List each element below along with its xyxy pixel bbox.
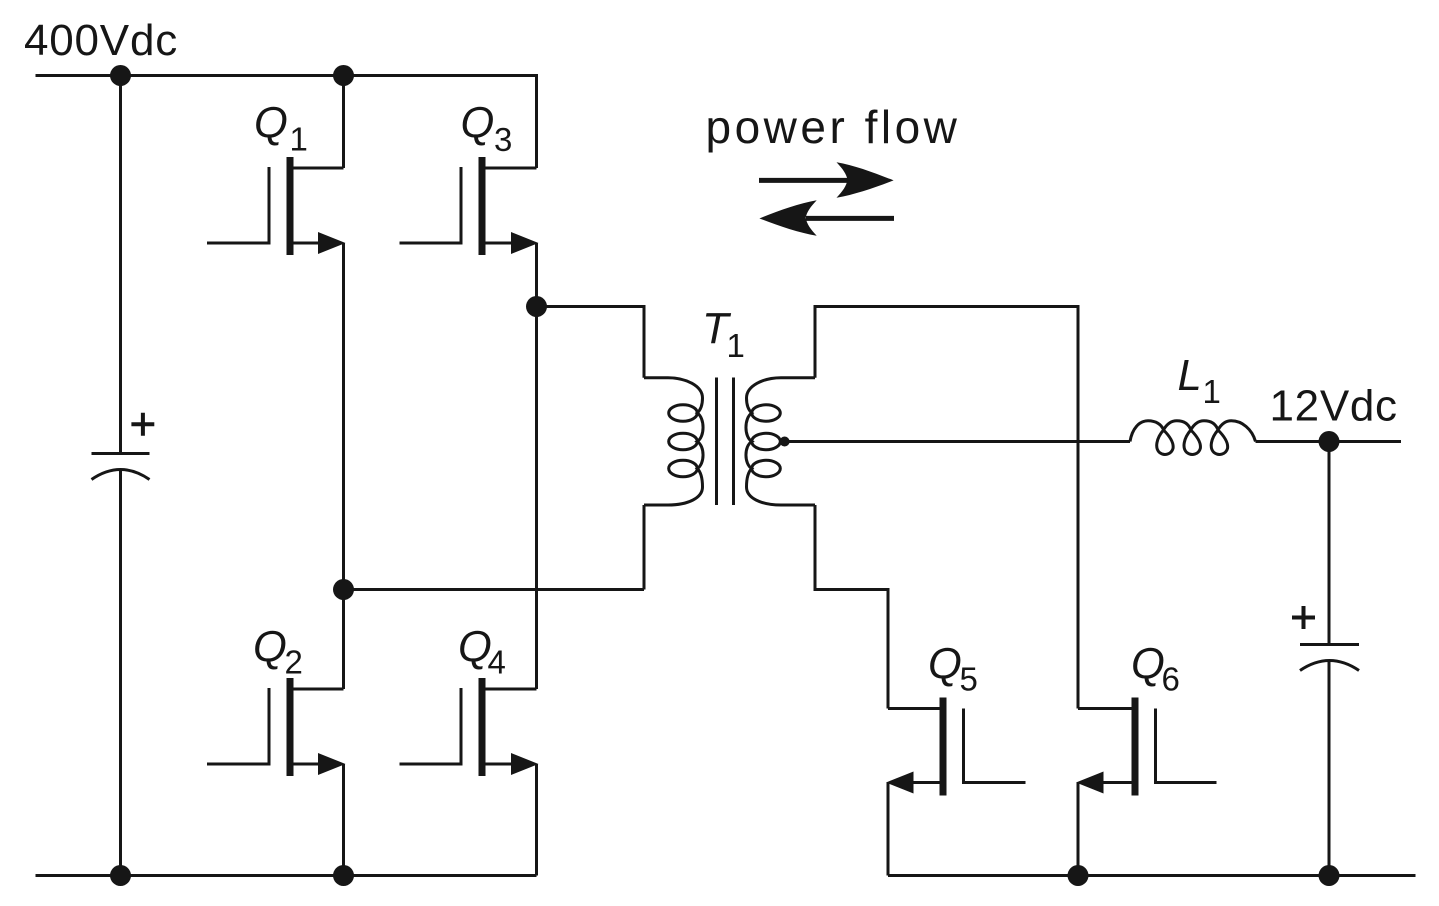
wire L1 to output xyxy=(1256,440,1402,443)
svg-text:L: L xyxy=(1178,352,1202,400)
capacitor output top plate xyxy=(1300,643,1359,646)
svg-text:Q: Q xyxy=(461,100,495,148)
wire T1 primary bottom lead xyxy=(643,505,646,590)
transistor Q2 channel bar xyxy=(287,678,294,776)
transistor Q1 gate xyxy=(207,167,269,243)
transistor Q5 drain lead xyxy=(888,707,940,710)
T1 secondary winding spine xyxy=(746,378,815,505)
transistor Q5 source wire to rail xyxy=(887,783,890,876)
transistor Q2 source lead xyxy=(294,763,323,766)
transistor Q4 gate xyxy=(400,688,462,764)
wire T1 secondary top to Q6 drain xyxy=(815,307,1078,709)
transistor Q5 channel bar xyxy=(940,698,947,796)
transistor Q5 source lead xyxy=(910,781,940,784)
transistor Q2 source wire to rail xyxy=(342,764,345,876)
svg-text:power flow: power flow xyxy=(706,101,961,153)
inductor L1 coil xyxy=(1130,421,1256,455)
T1 primary loop 3 xyxy=(669,460,698,476)
power flow right arrow shaft xyxy=(759,178,848,183)
transistor Q6 source arrow xyxy=(1076,772,1104,794)
svg-text:5: 5 xyxy=(960,661,978,698)
transistor Q3 source arrow xyxy=(511,232,539,254)
T1 primary winding spine xyxy=(644,378,703,505)
transistor Q2 source arrow xyxy=(318,753,346,775)
svg-text:4: 4 xyxy=(488,644,506,681)
capacitor output bottom wire xyxy=(1328,661,1331,876)
T1 primary loop 1 xyxy=(669,405,698,421)
transistor Q1 channel bar xyxy=(287,157,294,255)
power flow left arrow head xyxy=(759,200,816,236)
junction dot node B xyxy=(526,296,547,317)
capacitor input (400V bus) : top wire xyxy=(119,76,122,454)
svg-text:Q: Q xyxy=(253,624,287,672)
svg-text:1: 1 xyxy=(727,327,745,364)
junction dot bottom (cap output) xyxy=(1319,865,1340,886)
transistor Q6 source wire to rail xyxy=(1077,783,1080,876)
T1 center tap dot xyxy=(780,437,790,447)
transistor Q2 gate xyxy=(207,688,269,764)
transistor Q1 drain wire from rail xyxy=(342,76,345,169)
T1 core lines xyxy=(717,378,734,506)
wire bottom-right rail xyxy=(888,874,1416,877)
junction dot 12Vdc node xyxy=(1319,431,1340,452)
T1 secondary loop 1 xyxy=(752,405,781,421)
junction dot bottom (cap input) xyxy=(110,865,131,886)
transistor Q6 drain lead xyxy=(1078,707,1132,710)
svg-text:6: 6 xyxy=(1162,661,1180,698)
T1 secondary loop 3 xyxy=(752,460,781,476)
transistor Q6 channel bar xyxy=(1132,698,1139,796)
capacitor input bottom wire xyxy=(119,470,122,876)
wire T1 secondary bottom to Q5 drain xyxy=(815,505,888,709)
junction dot bottom (Q2 source) xyxy=(333,865,354,886)
wire node A to transformer primary bottom xyxy=(344,588,645,591)
capacitor input plus sign xyxy=(131,413,154,436)
transistor Q4 source arrow xyxy=(511,753,539,775)
svg-text:Q: Q xyxy=(254,100,288,148)
svg-text:12Vdc: 12Vdc xyxy=(1270,382,1398,431)
junction dot top-left (cap input) xyxy=(110,65,131,86)
capacitor output top wire xyxy=(1328,442,1331,645)
capacitor output bottom curved plate xyxy=(1300,661,1359,671)
transistor Q4 channel bar xyxy=(479,678,486,776)
svg-text:Q: Q xyxy=(928,641,962,689)
svg-text:3: 3 xyxy=(494,121,512,158)
junction dot node A xyxy=(333,579,354,600)
power flow left arrow shaft xyxy=(806,216,894,221)
T1 secondary loop 2 xyxy=(752,433,781,449)
junction dot top (Q1 drain) xyxy=(333,65,354,86)
transistor Q1 source arrow xyxy=(318,232,346,254)
power flow right arrow head xyxy=(837,162,894,198)
svg-text:1: 1 xyxy=(290,121,308,158)
junction dot bottom (Q6 source) xyxy=(1068,865,1089,886)
transistor Q3 gate xyxy=(400,167,462,243)
transistor Q3 source lead xyxy=(486,242,515,245)
transistor Q5 source arrow xyxy=(886,772,914,794)
capacitor output plus sign xyxy=(1292,606,1315,629)
svg-text:Q: Q xyxy=(1131,641,1165,689)
svg-text:2: 2 xyxy=(285,644,303,681)
wire phase node A vertical (Q1 source to Q2 drain) xyxy=(342,243,345,689)
svg-text:1: 1 xyxy=(1203,373,1221,410)
wire top rail xyxy=(36,76,537,169)
transistor Q4 source lead xyxy=(486,763,515,766)
T1 primary loop 2 xyxy=(669,433,698,449)
wire phase node B vertical (Q3 source to Q4 drain) xyxy=(535,243,538,689)
transistor Q1 drain lead xyxy=(294,167,344,170)
wire bottom-left rail xyxy=(36,874,537,877)
transistor Q3 drain lead xyxy=(486,167,537,170)
transistor Q1 source lead xyxy=(294,242,323,245)
transistor Q4 source wire to rail xyxy=(535,764,538,876)
transistor Q6 source lead xyxy=(1100,781,1132,784)
capacitor input top plate xyxy=(92,452,150,455)
transistor Q2 drain lead xyxy=(294,688,344,691)
transistor Q5 gate xyxy=(964,709,1026,783)
svg-text:400Vdc: 400Vdc xyxy=(24,16,178,65)
capacitor input bottom curved plate xyxy=(92,470,150,480)
wire center tap to L1 xyxy=(780,440,1130,443)
transistor Q6 gate xyxy=(1156,709,1217,783)
transistor Q4 drain lead xyxy=(486,688,537,691)
transistor Q3 channel bar xyxy=(479,157,486,255)
wire node B to T1 primary top xyxy=(537,307,645,378)
